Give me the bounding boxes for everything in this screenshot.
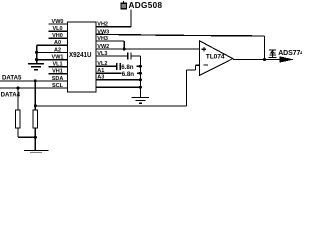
wire left pin VH1: [49, 73, 68, 75]
ground G1: [28, 64, 44, 70]
junction dot A3-rail: [139, 78, 142, 81]
svg-text:A3: A3: [97, 75, 104, 81]
wire right pin VW3 (to feedback): [96, 34, 264, 36]
svg-text:A1: A1: [97, 68, 104, 74]
junction dot C2-rail: [139, 65, 142, 68]
wire minus input: [196, 64, 200, 66]
op-amp plus marker: [202, 47, 206, 51]
svg-text:VL0: VL0: [52, 26, 62, 32]
svg-text:6.8n: 6.8n: [122, 71, 135, 78]
svg-text:ADS774: ADS774: [278, 50, 302, 57]
svg-text:A2: A2: [54, 47, 61, 53]
wire minus jog vertical: [195, 65, 197, 70]
svg-text:VH1: VH1: [52, 69, 63, 75]
svg-text:VW2: VW2: [97, 44, 109, 50]
wire left pin VL1: [49, 66, 68, 68]
op-amp U2 TL074 triangle: [200, 41, 233, 76]
capacitor C1 plate b: [130, 53, 132, 60]
svg-text:SCL: SCL: [52, 83, 64, 89]
wire resistor join: [18, 136, 35, 138]
wire left pin SCL: [0, 87, 67, 89]
svg-text:ADG508: ADG508: [129, 1, 163, 10]
wire C2 to rail: [120, 65, 140, 67]
wire VH3 to VW2: [123, 41, 125, 49]
value label C1 6.8n: [121, 63, 136, 71]
svg-text:A0: A0: [54, 40, 61, 46]
wire right pin VH2: [96, 26, 131, 28]
wire C1 to rail: [131, 55, 141, 57]
node label zhi(to) glyph: [268, 50, 276, 57]
wire left pin SDA: [0, 80, 67, 82]
wire left pin VH0: [49, 37, 68, 39]
svg-text:VW1: VW1: [52, 55, 64, 61]
wire minus drop: [186, 70, 188, 106]
op-amp minus marker: [203, 64, 208, 66]
capacitor C2 plate b: [119, 63, 121, 70]
resistor R2: [33, 81, 38, 137]
capacitor C1 plate a: [127, 53, 129, 60]
capacitor C2 plate a: [116, 63, 118, 70]
svg-text:VH3: VH3: [97, 36, 108, 42]
wire right pin VL3: [96, 55, 128, 57]
svg-text:VH0: VH0: [52, 33, 63, 39]
svg-text:X9241U: X9241U: [69, 50, 92, 59]
junction dot R join: [34, 136, 37, 139]
svg-text:DATA5: DATA5: [2, 75, 22, 82]
resistor R1: [16, 88, 21, 137]
junction dot Vss-rail: [139, 86, 142, 89]
wire minus jog horizontal: [187, 69, 196, 71]
svg-text:VW0: VW0: [52, 19, 64, 25]
node label icon zi(from): [121, 1, 127, 9]
ground G2: [132, 97, 149, 103]
wire feedback bottom: [35, 105, 186, 107]
junction dot DATA4-R1: [16, 86, 19, 89]
wire right pin VL2: [96, 65, 117, 67]
wire to ground G3: [34, 137, 36, 150]
wire left pin VW1: [37, 59, 68, 61]
junction dot VW1-rail: [35, 58, 38, 61]
svg-text:VL2: VL2: [97, 61, 107, 67]
svg-text:VH2: VH2: [97, 22, 108, 28]
wire pin Vss: [96, 86, 140, 88]
svg-text:TL074: TL074: [206, 54, 225, 61]
ground G3: [24, 151, 48, 153]
junction dot output node: [263, 58, 266, 61]
wire left pin VL0: [49, 30, 68, 32]
wire right pin VW2: [96, 48, 200, 50]
arrow to ADS774: [280, 56, 295, 62]
wire right pin VH3: [96, 40, 124, 42]
IC U1 X9241U body: [67, 22, 96, 92]
wire left pin A0: [37, 44, 68, 46]
wire feedback top: [263, 36, 265, 60]
wire right pin A1: [96, 72, 140, 74]
junction dot A2-rail: [35, 51, 38, 54]
wire right rail: [139, 56, 141, 97]
junction dot DATA5-R2: [34, 79, 37, 82]
svg-text:SDA: SDA: [52, 76, 64, 82]
junction dot A1-rail: [139, 72, 142, 75]
svg-text:6.8n: 6.8n: [121, 64, 134, 71]
svg-text:VL1: VL1: [52, 62, 62, 68]
junction dot R2 tap: [34, 104, 37, 107]
wire left pin A2: [37, 51, 68, 53]
wire left pin VW0: [49, 23, 68, 25]
wire op-amp output: [233, 59, 281, 61]
svg-text:VL3: VL3: [97, 51, 107, 57]
wire left ground rail: [36, 45, 38, 63]
svg-text:VW3: VW3: [97, 29, 109, 35]
value label C2 6.8n: [121, 70, 137, 78]
wire from ADG508: [130, 9, 132, 27]
junction dot VH3-VW2: [123, 47, 126, 50]
wire right pin A3: [96, 79, 140, 81]
